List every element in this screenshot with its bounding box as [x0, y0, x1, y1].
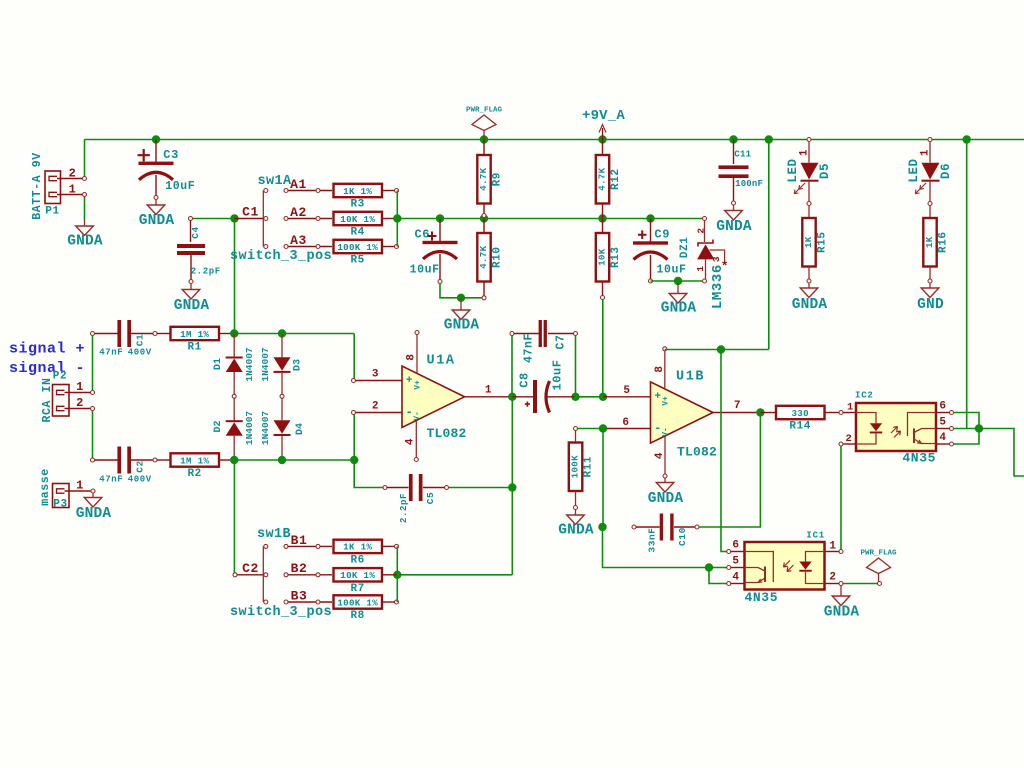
capacitor C3	[155, 140, 157, 163]
junction R9/R10 tap	[480, 214, 488, 222]
ground GNDA R11	[575, 510, 577, 516]
ground GNDA P3	[92, 493, 94, 498]
wire IC1 pin4 branch	[709, 568, 727, 584]
capacitor C5	[383, 486, 387, 490]
svg-text:A2: A2	[290, 205, 307, 220]
svg-text:8: 8	[654, 365, 666, 372]
svg-text:47nF: 47nF	[523, 333, 536, 363]
svg-text:GNDA: GNDA	[139, 213, 175, 229]
resistor R10	[483, 219, 485, 234]
svg-text:4: 4	[732, 572, 739, 584]
svg-text:+9V_A: +9V_A	[582, 108, 625, 124]
resistor R4	[334, 212, 383, 225]
resistor R12	[602, 140, 604, 156]
svg-text:100nF: 100nF	[735, 179, 763, 189]
wire to U1A pin3	[353, 334, 355, 380]
junction R2/D2	[230, 456, 238, 464]
svg-text:R5: R5	[350, 255, 364, 267]
svg-text:10uF: 10uF	[657, 263, 687, 276]
svg-text:4: 4	[939, 432, 946, 444]
wire IC2 output to edge	[979, 429, 1024, 477]
svg-text:2.2pF: 2.2pF	[399, 493, 409, 523]
junction C10 left	[598, 523, 606, 531]
junction ground link DZ1	[674, 277, 682, 285]
connector P1	[45, 171, 61, 204]
wire R1/D1 node	[234, 333, 354, 335]
svg-text:5: 5	[732, 556, 739, 568]
capacitor C8	[533, 380, 537, 413]
svg-text:GNDA: GNDA	[661, 301, 697, 317]
junction C5/feedback	[508, 483, 516, 491]
svg-text:1K 1%: 1K 1%	[343, 542, 372, 553]
resistor R14	[776, 406, 825, 419]
svg-text:D5: D5	[818, 163, 832, 179]
op-amp U1B	[651, 382, 714, 443]
svg-text:1K: 1K	[803, 236, 814, 248]
svg-text:1N4007: 1N4007	[260, 411, 271, 446]
svg-text:5: 5	[939, 417, 946, 429]
svg-text:6: 6	[939, 401, 946, 413]
svg-text:R11: R11	[583, 456, 595, 478]
wire node A to R1 node	[234, 219, 236, 334]
wire IC2 drop join	[966, 140, 968, 429]
svg-text:GNDA: GNDA	[716, 219, 752, 235]
svg-text:+: +	[406, 375, 413, 387]
wire IC1 pin6 feed	[721, 350, 727, 552]
junction C3 tap	[152, 135, 160, 143]
wire pin6 to C10	[602, 429, 604, 528]
svg-text:C1: C1	[135, 334, 146, 347]
connector P2 RCA IN	[53, 385, 70, 417]
svg-text:3: 3	[711, 256, 722, 262]
svg-text:R4: R4	[350, 227, 364, 239]
wire P2 pin1 to C1	[92, 336, 94, 391]
svg-text:GND: GND	[917, 297, 944, 313]
junction U1B V+ drop	[765, 135, 773, 143]
junction U1B output	[756, 408, 764, 416]
junction R6-R8 bus	[393, 571, 401, 579]
junction IC1 pin5 node	[705, 563, 713, 571]
svg-text:R16: R16	[938, 231, 950, 253]
junction pin8 net	[717, 345, 725, 353]
svg-text:1: 1	[76, 479, 84, 493]
svg-text:PWR_FLAG: PWR_FLAG	[860, 550, 897, 558]
capacitor C9	[650, 219, 652, 242]
switch sw1A contact A3	[284, 245, 288, 249]
svg-text:R15: R15	[817, 231, 829, 253]
svg-text:GNDA: GNDA	[824, 605, 860, 621]
svg-text:R1: R1	[187, 342, 201, 354]
svg-text:R9: R9	[492, 172, 504, 186]
resistor R16	[929, 206, 931, 219]
capacitor C10	[632, 525, 636, 529]
svg-text:10K: 10K	[597, 248, 608, 266]
junction PWR_FLAG/R9 tap	[480, 135, 488, 143]
svg-text:1N4007: 1N4007	[244, 347, 255, 382]
svg-text:B1: B1	[291, 533, 308, 548]
junction C9 tap	[646, 214, 654, 222]
svg-text:C8: C8	[518, 372, 532, 388]
wire C9/DZ1 ground link	[651, 280, 705, 282]
svg-text:4.7K: 4.7K	[478, 245, 489, 268]
wire R13 to U1B pin5	[602, 300, 604, 397]
svg-text:V+: V+	[414, 380, 423, 390]
svg-text:1: 1	[829, 541, 836, 553]
wire to IC1 pins 5/4	[603, 527, 728, 568]
svg-text:LED: LED	[907, 158, 921, 182]
wire P1 pin2 riser	[84, 140, 86, 178]
junction ground link	[457, 294, 465, 302]
ground GNDA C6/R10	[460, 298, 462, 310]
resistor R11	[574, 427, 578, 431]
svg-text:LED: LED	[786, 158, 800, 182]
svg-text:GNDA: GNDA	[648, 491, 684, 507]
capacitor C1	[91, 332, 95, 336]
junction D3	[278, 329, 286, 337]
svg-text:C9: C9	[654, 227, 670, 241]
svg-text:V-: V-	[413, 411, 422, 421]
svg-text:A1: A1	[290, 177, 307, 192]
junction bias bus left	[393, 214, 401, 222]
net label +9V_A	[602, 128, 604, 140]
svg-text:2: 2	[846, 433, 853, 445]
svg-text:2.2pF: 2.2pF	[191, 267, 221, 277]
junction IC2 drop	[963, 135, 971, 143]
svg-text:V+: V+	[662, 396, 671, 406]
diode D3	[281, 334, 283, 358]
svg-text:1N4007: 1N4007	[244, 411, 255, 446]
svg-text:R7: R7	[350, 583, 364, 595]
svg-text:masse: masse	[39, 468, 52, 506]
optocoupler IC2	[856, 403, 936, 451]
wire +9V rail	[85, 139, 1024, 141]
ground GND D6/R16	[929, 283, 931, 288]
svg-text:C2: C2	[135, 460, 146, 473]
svg-text:signal +: signal +	[9, 341, 85, 358]
capacitor C6	[439, 219, 441, 242]
svg-text:GNDA: GNDA	[558, 523, 594, 539]
svg-text:V-: V-	[662, 427, 671, 437]
svg-text:10uF: 10uF	[165, 180, 195, 193]
svg-text:1: 1	[69, 183, 77, 197]
resistor R9	[483, 140, 485, 156]
svg-text:R8: R8	[350, 610, 364, 622]
switch sw1A contact A2	[284, 217, 288, 221]
svg-text:1: 1	[695, 265, 706, 271]
svg-text:C11: C11	[734, 150, 751, 160]
wire feedback to sw1B bus	[397, 574, 512, 576]
svg-text:R13: R13	[610, 246, 622, 268]
wire sw1B feed	[233, 460, 235, 573]
svg-text:1: 1	[485, 385, 492, 397]
wire IC2 pin6 link	[954, 413, 980, 429]
svg-text:6: 6	[622, 417, 629, 429]
ground GNDA C9/DZ1	[677, 283, 679, 294]
svg-text:1M 1%: 1M 1%	[180, 329, 209, 340]
wire R2/D2 node	[234, 459, 354, 461]
svg-text:B3: B3	[291, 589, 308, 604]
svg-text:P2: P2	[53, 371, 67, 383]
wire IC2 pin4 link	[954, 429, 980, 445]
ground GNDA C3	[155, 200, 157, 206]
switch sw1B contact B2	[284, 573, 288, 577]
svg-text:D3: D3	[293, 359, 304, 371]
svg-text:2: 2	[69, 167, 77, 181]
svg-text:C3: C3	[163, 148, 179, 162]
svg-text:1N4007: 1N4007	[260, 347, 271, 382]
svg-text:R14: R14	[789, 421, 811, 433]
junction C11 tap	[729, 135, 737, 143]
resistor R7	[334, 568, 383, 581]
svg-text:U1A: U1A	[427, 354, 456, 369]
resistor R15	[808, 206, 810, 219]
junction C6 tap	[436, 214, 444, 222]
capacitor C7	[510, 332, 514, 336]
svg-text:1: 1	[920, 149, 932, 156]
junction C7/C8 right	[571, 393, 579, 401]
switch sw1A contact A1	[284, 189, 288, 193]
svg-text:D2: D2	[213, 420, 224, 432]
svg-text:4: 4	[405, 438, 417, 445]
svg-text:P3: P3	[53, 499, 67, 511]
op-amp U1A	[402, 366, 465, 428]
optocoupler IC1	[745, 542, 825, 590]
diode D4	[281, 398, 283, 421]
svg-text:400V: 400V	[128, 474, 152, 484]
wire U1B pin6 net	[578, 428, 604, 430]
ground GNDA U1B pin4	[664, 478, 666, 483]
wire bias node bus	[397, 218, 704, 220]
wire P2 pin2 to C2	[92, 411, 94, 459]
svg-text:C1: C1	[242, 205, 259, 220]
capacitor C4	[189, 217, 193, 221]
resistor R5	[334, 240, 383, 253]
svg-text:C7: C7	[555, 334, 568, 349]
svg-text:GNDA: GNDA	[174, 298, 210, 314]
wire U1A pin2 net	[354, 415, 383, 488]
junction IC2 output	[975, 424, 983, 432]
junction U1A output	[508, 393, 516, 401]
svg-text:R12: R12	[610, 168, 622, 190]
wire R3-R5 bus	[396, 191, 398, 247]
junction U1A pin2 link	[350, 456, 358, 464]
svg-text:4.7K: 4.7K	[478, 167, 489, 190]
junction D4	[278, 456, 286, 464]
junction U1B pin5	[599, 393, 607, 401]
svg-text:10uF: 10uF	[551, 359, 565, 390]
svg-text:10uF: 10uF	[410, 263, 440, 276]
svg-text:signal -: signal -	[9, 360, 85, 377]
wire C6 to R10 ground link	[440, 284, 482, 298]
svg-text:C4: C4	[190, 226, 201, 239]
resistor R8	[334, 595, 383, 608]
svg-text:33nF: 33nF	[647, 527, 658, 552]
svg-text:1K: 1K	[924, 236, 935, 248]
resistor R3	[334, 184, 383, 197]
svg-text:BATT-A 9V: BATT-A 9V	[31, 152, 44, 220]
svg-text:P1: P1	[45, 206, 59, 218]
svg-text:GNDA: GNDA	[792, 297, 828, 313]
junction +9V_A/R12 tap	[598, 135, 606, 143]
wire IC1 pin2 to PWR_FLAG	[843, 583, 878, 585]
led D6	[928, 138, 932, 142]
led D5	[807, 138, 811, 142]
junction R1/D1	[230, 329, 238, 337]
svg-text:IC1: IC1	[806, 531, 825, 541]
svg-text:GNDA: GNDA	[76, 506, 112, 522]
zener DZ1 LM336	[703, 217, 707, 221]
svg-text:TL082: TL082	[677, 445, 717, 460]
svg-text:B2: B2	[291, 561, 308, 576]
svg-text:R6: R6	[350, 555, 364, 567]
svg-text:47nF: 47nF	[99, 474, 123, 484]
svg-text:100K 1%: 100K 1%	[337, 597, 378, 608]
wire U1B pin8 net	[665, 349, 769, 351]
svg-text:switch_3_pos: switch_3_pos	[230, 249, 332, 264]
resistor R2	[157, 459, 171, 461]
svg-text:D1: D1	[213, 358, 224, 370]
svg-text:100K: 100K	[570, 455, 581, 478]
svg-text:6: 6	[732, 540, 739, 552]
svg-text:47nF: 47nF	[99, 347, 123, 357]
resistor R6	[334, 540, 383, 553]
wire IC2 pin5 link	[954, 428, 980, 430]
svg-text:D4: D4	[295, 423, 306, 435]
svg-text:7: 7	[734, 400, 741, 412]
svg-text:4: 4	[654, 452, 666, 459]
svg-text:A3: A3	[290, 233, 307, 248]
wire R6-R8 bus	[396, 546, 398, 602]
svg-text:R2: R2	[187, 468, 201, 480]
svg-text:PWR_FLAG: PWR_FLAG	[466, 107, 503, 115]
connector P3 masse	[53, 484, 70, 508]
svg-text:5: 5	[623, 385, 630, 397]
svg-text:2: 2	[829, 572, 836, 584]
power flag PWR_FLAG IC1	[867, 558, 891, 574]
diode D2	[233, 398, 235, 421]
ground GNDA C4	[190, 284, 192, 290]
svg-text:DZ1: DZ1	[679, 236, 691, 258]
svg-text:4N35: 4N35	[745, 590, 779, 605]
svg-text:sw1B: sw1B	[257, 527, 291, 542]
switch sw1B contact B1	[284, 544, 288, 548]
svg-text:LM336: LM336	[710, 264, 726, 309]
svg-text:10K 1%: 10K 1%	[340, 570, 375, 581]
resistor R13	[602, 219, 604, 234]
switch sw1A pole	[262, 191, 264, 247]
ground GNDA P1	[84, 220, 86, 226]
ground GNDA D5/R15	[808, 283, 810, 288]
svg-text:C5: C5	[425, 492, 436, 505]
wire U1A output node	[511, 397, 513, 575]
wire C10 right to output	[699, 413, 760, 528]
svg-text:2: 2	[372, 401, 379, 413]
capacitor C11	[733, 140, 735, 165]
svg-text:IC2: IC2	[855, 391, 874, 401]
svg-text:R3: R3	[350, 199, 364, 211]
svg-text:RCA IN: RCA IN	[41, 377, 54, 422]
svg-text:C10: C10	[677, 527, 688, 546]
svg-text:GNDA: GNDA	[444, 318, 480, 334]
svg-text:2: 2	[696, 227, 707, 233]
power flag PWR_FLAG top	[472, 115, 496, 131]
svg-text:switch_3_pos: switch_3_pos	[230, 605, 332, 620]
svg-text:100K 1%: 100K 1%	[337, 242, 378, 253]
svg-text:GNDA: GNDA	[67, 234, 103, 250]
svg-text:3: 3	[372, 369, 379, 381]
svg-text:10K 1%: 10K 1%	[340, 214, 375, 225]
wire V+ drop to pin8	[768, 140, 770, 350]
svg-text:1K 1%: 1K 1%	[343, 186, 372, 197]
junction pin6 net	[599, 424, 607, 432]
wire C8 to U1B pin5	[576, 396, 604, 398]
svg-text:C6: C6	[415, 228, 431, 242]
wire C7 left leg	[511, 336, 513, 397]
svg-text:400V: 400V	[128, 347, 152, 357]
diode D1	[233, 334, 235, 358]
ground GNDA IC1 pin2	[840, 586, 842, 597]
svg-text:sw1A: sw1A	[258, 174, 293, 189]
wire C5 to output node	[449, 487, 513, 489]
switch sw1B pole	[262, 546, 264, 602]
svg-text:1: 1	[76, 380, 84, 394]
svg-text:D6: D6	[939, 163, 953, 179]
svg-text:1M 1%: 1M 1%	[180, 455, 209, 466]
svg-text:TL082: TL082	[427, 426, 467, 441]
wire sw1A common	[191, 218, 235, 220]
svg-text:330: 330	[791, 408, 808, 419]
junction R12/R13 tap	[598, 214, 606, 222]
svg-text:1: 1	[799, 149, 811, 156]
wire C7 right leg	[575, 336, 577, 397]
svg-text:C2: C2	[242, 561, 259, 576]
svg-text:R10: R10	[492, 246, 504, 268]
svg-text:4N35: 4N35	[902, 451, 936, 466]
resistor R1	[157, 333, 171, 335]
svg-text:U1B: U1B	[676, 370, 705, 385]
capacitor C2	[91, 458, 95, 462]
wire IC2 pin2 to IC1 pin1	[840, 446, 842, 550]
wire P1 pin1 to ground	[84, 196, 86, 220]
junction sw1A common	[230, 214, 238, 222]
svg-text:8: 8	[406, 353, 418, 360]
svg-text:1: 1	[847, 402, 854, 414]
switch sw1B contact B3	[284, 600, 288, 604]
svg-text:2: 2	[76, 396, 84, 410]
svg-text:4.7K: 4.7K	[597, 167, 608, 190]
ground GNDA C11	[733, 205, 735, 211]
